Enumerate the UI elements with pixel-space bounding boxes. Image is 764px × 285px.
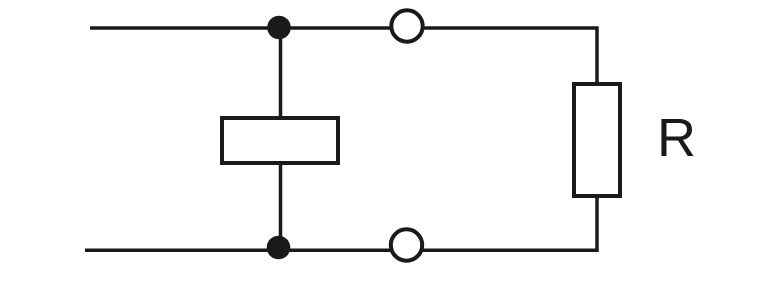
- svg-text:R: R: [657, 108, 696, 168]
